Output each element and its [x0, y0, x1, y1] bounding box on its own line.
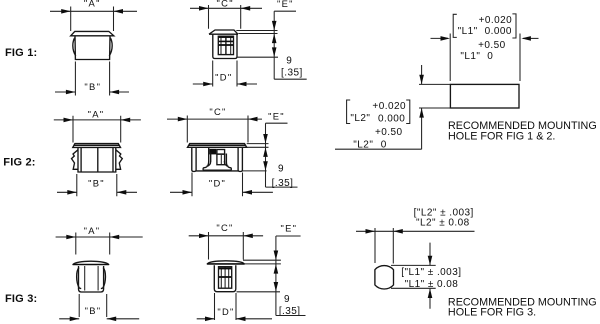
fig2 side dim D arrows — [183, 190, 193, 195]
fig2 side dim C line — [167, 118, 262, 120]
svg-text:0.000: 0.000 — [378, 113, 405, 124]
svg-text:+0.50: +0.50 — [478, 40, 506, 51]
svg-text:"C": "C" — [217, 0, 234, 9]
fig1 front left latch wing — [73, 38, 76, 56]
fig3 front dim A ext lines — [76, 233, 110, 255]
fig3 front left wing — [77, 268, 82, 289]
svg-text:"A": "A" — [84, 0, 101, 9]
detail fig3 L2 arrows — [366, 229, 376, 234]
fig2 side flange — [188, 144, 247, 148]
fig3 side dim D line — [197, 318, 272, 320]
fig1 side window — [218, 36, 233, 54]
fig2 front dim A arrows — [64, 118, 74, 123]
fig2 front body — [78, 147, 116, 172]
svg-text:FIG 1:: FIG 1: — [5, 47, 37, 59]
fig2 dim E arrows — [263, 134, 268, 144]
fig1 dim E arrows — [272, 21, 277, 31]
svg-text:"E": "E" — [280, 222, 297, 233]
svg-text:9: 9 — [284, 294, 290, 305]
svg-text:FIG 3:: FIG 3: — [5, 293, 37, 305]
fig2 shelf under .35 — [266, 186, 298, 188]
fig1 front right latch wing — [109, 38, 112, 56]
fig3 side dim D arrows — [205, 317, 215, 322]
fig1 side ladder — [221, 38, 231, 55]
fig1 front dim A ext lines — [71, 7, 114, 32]
fig1 shelf under .35 — [274, 78, 307, 80]
detail fig3 L2 ext lines — [375, 228, 393, 264]
fig2 side dim C arrows — [178, 117, 188, 122]
fig1 front dim B line — [55, 91, 129, 93]
fig2 front dim A line — [54, 119, 141, 121]
fig2 side snap window divider — [220, 155, 222, 165]
fig3 side dome cap — [207, 261, 244, 264]
fig1 side dim D line — [193, 83, 257, 85]
fig3 front dim B ext lines — [79, 294, 107, 317]
detail fig12 bracket close — [512, 14, 516, 38]
svg-text:"A": "A" — [88, 108, 105, 119]
svg-text:9: 9 — [286, 56, 292, 67]
fig2 front flange — [73, 144, 121, 148]
fig2 side snap window — [217, 154, 225, 165]
fig1 side dim C arrows — [199, 6, 209, 11]
fig1 side dim D ext lines — [213, 61, 237, 87]
fig2 side left leg — [192, 147, 196, 171]
svg-text:"A": "A" — [84, 225, 101, 236]
detail fig3 L1 vertical dim line — [429, 243, 431, 309]
svg-text:"C": "C" — [209, 106, 226, 117]
svg-text:"L2": "L2" — [350, 113, 370, 124]
detail fig12 L2 vertical dim line — [421, 65, 423, 149]
fig3 side window — [219, 267, 232, 289]
fig3 front dim A arrows — [66, 235, 76, 240]
svg-text:FIG 2:: FIG 2: — [3, 157, 35, 169]
svg-text:"D": "D" — [209, 178, 226, 189]
fig2 front dim A ext lines — [73, 116, 121, 143]
fig2 front dim B arrows — [67, 190, 77, 195]
svg-text:"B": "B" — [84, 81, 101, 92]
svg-text:"L1": "L1" — [458, 26, 478, 37]
detail fig12 ext lines — [450, 34, 520, 82]
fig3 front dim B arrows — [70, 317, 80, 322]
fig3 side body — [214, 265, 236, 291]
fig3 shelf under .35 — [276, 315, 306, 317]
svg-text:9: 9 — [278, 164, 284, 175]
fig2 front right latch wing — [116, 150, 123, 170]
fig3 dim E vertical line — [275, 236, 277, 316]
fig2 side dim D line — [170, 191, 273, 193]
detail fig12 L2 bracket close — [406, 100, 410, 124]
fig1 front dim B ext lines — [75, 62, 109, 96]
fig1 front dim B arrows — [66, 90, 76, 95]
detail fig12 L2 arrows — [419, 75, 424, 85]
svg-text:"C": "C" — [216, 222, 233, 233]
svg-text:+0.50: +0.50 — [375, 127, 403, 138]
fig3 side cap ext lines — [243, 260, 281, 264]
fig3 side dim C ext lines — [209, 232, 244, 260]
fig3 dim E arrows — [274, 251, 279, 261]
svg-text:0.000: 0.000 — [485, 26, 512, 37]
svg-text:+0.020: +0.020 — [479, 15, 513, 26]
fig1 side dim C line — [190, 7, 262, 9]
fig1 side cap edge ext lines — [236, 31, 277, 34]
svg-text:"D": "D" — [217, 306, 234, 317]
fig3 side dim C line — [189, 235, 263, 237]
fig1 front dim A arrows — [61, 9, 71, 14]
fig2 front dim B ext lines — [77, 174, 117, 196]
fig2 dim E vertical line — [265, 123, 267, 187]
fig2 side dim D ext lines — [192, 173, 243, 197]
svg-text:"E": "E" — [268, 110, 285, 121]
svg-text:"B": "B" — [88, 178, 105, 189]
fig2 side dim C ext lines — [187, 116, 248, 143]
fig1 dim E shelf — [274, 10, 296, 12]
svg-text:[.35]: [.35] — [281, 67, 303, 78]
fig1 side dim D arrows — [203, 82, 213, 87]
detail fig12 bracket open — [453, 14, 457, 37]
fig2 front dim B line — [57, 191, 137, 193]
fig2 side right leg — [238, 147, 242, 171]
svg-text:0: 0 — [487, 51, 493, 62]
fig1 side dim C ext lines — [209, 5, 241, 29]
detail fig12 L2 underline — [335, 148, 422, 150]
fig2 side bottom ext line — [242, 170, 266, 172]
fig2 dim E shelf — [266, 122, 288, 124]
fig3 body bottom ext line — [237, 291, 281, 293]
detail fig12 L1 dim right line and arrow — [523, 37, 539, 39]
fig2 side snap dark rect — [209, 149, 216, 155]
svg-text:+0.020: +0.020 — [372, 101, 406, 112]
detail fig12 L1 dim left line and arrow — [431, 37, 449, 39]
fig3 side dim D ext lines — [215, 293, 237, 320]
detail fig3 L1 leaders — [391, 265, 436, 288]
svg-text:"L2" ± 0.08: "L2" ± 0.08 — [416, 217, 470, 228]
detail fig12 rectangle hole — [450, 84, 519, 108]
svg-text:"B": "B" — [85, 305, 102, 316]
svg-text:"L1" ± 0.08: "L1" ± 0.08 — [405, 279, 459, 290]
fig3 side dim C arrows — [199, 234, 209, 239]
fig3 front inner lines — [85, 266, 98, 291]
detail fig12 L2 bracket open — [347, 100, 351, 124]
detail fig3 L2 dim line — [356, 230, 475, 232]
detail fig3 L1 arrows — [428, 256, 433, 266]
detail fig12 L2 leaders — [419, 84, 450, 108]
svg-text:HOLE FOR FIG 3.: HOLE FOR FIG 3. — [448, 306, 536, 318]
fig2 side flange ext lines — [247, 144, 269, 148]
fig3 side ladder — [221, 267, 228, 288]
fig3 front dim A line — [56, 236, 143, 238]
fig3 front dome cap — [73, 261, 109, 264]
svg-text:"E": "E" — [277, 0, 294, 9]
detail fig3 double-D hole — [375, 266, 394, 289]
fig3 dim E shelf — [276, 235, 301, 237]
fig1 body bottom ext line — [237, 56, 278, 58]
fig3 front body — [79, 266, 104, 292]
fig1 side body — [213, 34, 237, 58]
fig2 front left latch wing — [72, 150, 79, 170]
fig2 side bottom line — [196, 170, 238, 172]
fig1 side cap — [209, 30, 238, 34]
svg-text:["L1" ± .003]: ["L1" ± .003] — [401, 267, 461, 278]
fig2 side snap right column — [225, 154, 227, 162]
fig3 front dim B line — [59, 318, 139, 320]
fig2 side snap small rect — [217, 150, 225, 155]
svg-text:"D": "D" — [215, 71, 232, 82]
fig1 front body — [75, 36, 110, 60]
fig1 dim E vertical line — [273, 11, 275, 79]
fig3 front right wing — [101, 268, 106, 289]
fig2 side snap left column — [209, 147, 211, 161]
svg-text:"L1": "L1" — [460, 51, 480, 62]
fig2 side snap feet — [203, 161, 231, 170]
fig1 front flange — [71, 31, 114, 35]
fig1 front dim A line — [50, 10, 137, 12]
svg-text:HOLE FOR FIG 1 & 2.: HOLE FOR FIG 1 & 2. — [448, 131, 555, 143]
